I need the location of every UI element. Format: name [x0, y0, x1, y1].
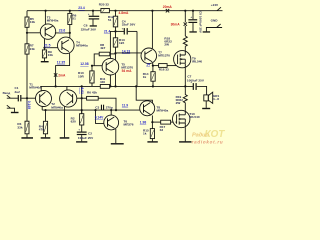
- svg-text:10k: 10k: [48, 53, 53, 57]
- svg-text:МП940а: МП940а: [29, 85, 41, 89]
- svg-text:10k: 10k: [30, 20, 35, 24]
- svg-text:1k: 1k: [143, 75, 147, 79]
- resistor R8: [94, 43, 115, 66]
- wire T8 emitter down: [151, 115, 153, 122]
- node 12.08: [91, 65, 93, 67]
- resistor R18 zigzag: [164, 36, 187, 47]
- node C3 left: [94, 109, 96, 111]
- svg-text:23.4: 23.4: [78, 6, 85, 10]
- svg-text:+: +: [78, 128, 80, 132]
- wire top supply rail right segment: [109, 10, 217, 12]
- connector +24V: [211, 3, 223, 11]
- wire T7 collector to rail: [151, 11, 153, 49]
- resistor R6 43k: [87, 90, 116, 110]
- resistor R7: [25, 44, 35, 54]
- feedback wire horizontal: [42, 109, 140, 111]
- svg-text:24k: 24k: [30, 47, 35, 51]
- svg-text:620: 620: [71, 119, 76, 123]
- node rail C6: [92, 10, 94, 12]
- node divider junction: [26, 32, 28, 34]
- wire R13 to T7 base node: [115, 47, 117, 86]
- node T6 collector: [110, 109, 112, 111]
- svg-text:51: 51: [108, 18, 112, 22]
- node T7 base junction: [114, 52, 116, 54]
- connector input ground: [7, 105, 19, 113]
- svg-text:100uF 25V: 100uF 25V: [78, 136, 94, 140]
- node rail R13 column: [114, 85, 116, 87]
- wire R19 to T10 drain: [184, 103, 186, 111]
- wire R12 to R13: [115, 27, 117, 38]
- resistor R16: [153, 64, 177, 72]
- wire R18 to T9 drain: [184, 46, 186, 51]
- resistor R15: [143, 122, 158, 142]
- node 21.4 junction: [114, 30, 116, 32]
- node input base junction: [26, 97, 28, 99]
- svg-text:51: 51: [72, 16, 76, 20]
- svg-text:R20 33: R20 33: [99, 3, 109, 7]
- wire T7 emitter down: [152, 62, 154, 65]
- svg-text:GND: GND: [211, 18, 219, 22]
- svg-text:20mA: 20mA: [163, 5, 173, 9]
- svg-text:0.149: 0.149: [27, 101, 31, 109]
- capacitor C7: [187, 75, 205, 90]
- svg-text:14: 14: [146, 63, 150, 67]
- transistor T6: [104, 110, 134, 144]
- svg-text:430: 430: [100, 80, 105, 84]
- resistor R5: [25, 17, 35, 27]
- node rail T3: [45, 10, 47, 12]
- node at 69.8,32.9: [69, 32, 71, 34]
- resistor R19 zigzag: [176, 86, 188, 105]
- resistor R6 51: [68, 11, 77, 33]
- wire top supply rail left segment: [27, 10, 101, 12]
- svg-text:МП1370: МП1370: [158, 53, 170, 57]
- node rail R14: [152, 85, 154, 87]
- svg-text:R16 33: R16 33: [159, 68, 169, 72]
- wire T4 collector path with current probe: [56, 53, 70, 86]
- speaker GR1: [204, 92, 220, 103]
- capacitor C6: [81, 11, 100, 32]
- wire T4 base: [45, 47, 58, 49]
- svg-text:1k5: 1k5: [119, 41, 124, 45]
- capacitor C3: [95, 105, 113, 110]
- current probe X 20mA: [163, 5, 173, 12]
- svg-text:21.5: 21.5: [44, 44, 51, 48]
- resistor R17: [152, 120, 175, 132]
- resistor R20: [99, 3, 110, 13]
- connector GND: [203, 18, 222, 32]
- resistor R14: [143, 66, 155, 87]
- watermark Radio KOT: [192, 129, 226, 144]
- node on rail at R5 column: [26, 11, 28, 17]
- transistor T2: [51, 86, 77, 137]
- node rail T9 source: [184, 85, 186, 87]
- wire T3 right to R6 column: [55, 33, 70, 38]
- svg-text:33uF 26V: 33uF 26V: [122, 23, 137, 27]
- svg-text:R6 43k: R6 43k: [87, 90, 97, 94]
- transistor T8 driver: [140, 101, 169, 116]
- transistor T4: [58, 37, 89, 54]
- svg-text:IRL540: IRL540: [189, 115, 199, 119]
- svg-text:+: +: [122, 26, 124, 30]
- wire C7 to speaker: [197, 86, 207, 95]
- ground under R9: [41, 58, 49, 63]
- resistor R10: [78, 66, 94, 87]
- node rail MOSFET column: [184, 10, 186, 12]
- svg-text:470: 470: [39, 127, 44, 131]
- svg-text:Радио: Радио: [192, 132, 209, 138]
- node rail T1T2 emitters: [55, 85, 57, 87]
- node T4 base junction: [43, 47, 45, 49]
- capacitor C1: [15, 86, 28, 102]
- ground under T2 collector: [60, 137, 70, 139]
- svg-text:МП940а: МП940а: [47, 19, 59, 23]
- node rail R6: [69, 10, 71, 12]
- wire T3 emitter to rail: [44, 11, 46, 24]
- svg-text:МП940а: МП940а: [157, 109, 169, 113]
- svg-text:21.4: 21.4: [104, 29, 111, 33]
- svg-text:МП376: МП376: [124, 123, 134, 127]
- wire T8 collector from rail: [136, 86, 152, 103]
- resistor R12: [108, 11, 118, 27]
- wire rail down to probe: [184, 11, 186, 23]
- wire T5 emitter down: [109, 75, 111, 86]
- resistor R4: [39, 110, 51, 139]
- svg-text:33k: 33k: [17, 125, 22, 129]
- resistor R11 430 in series on rail: [100, 77, 110, 88]
- current probe X 2mA: [54, 73, 66, 77]
- svg-text:33: 33: [160, 128, 164, 132]
- wire feedback to rail: [81, 86, 83, 113]
- resistor R2: [71, 110, 84, 131]
- wire T6 base: [96, 110, 104, 123]
- svg-text:IRL540: IRL540: [192, 60, 202, 64]
- wire T9 source to output rail: [184, 68, 186, 87]
- svg-text:12.08: 12.08: [80, 62, 88, 66]
- svg-text:4...8: 4...8: [213, 97, 219, 101]
- svg-text:23.6: 23.6: [59, 29, 66, 33]
- wire probe to R18: [184, 26, 186, 36]
- svg-text:+: +: [88, 12, 90, 16]
- MOSFET T10: [173, 110, 200, 127]
- svg-text:2u2: 2u2: [15, 90, 21, 94]
- svg-text:8.01: 8.01: [80, 88, 84, 95]
- node T8 emitter: [151, 121, 153, 123]
- svg-text:C3: C3: [95, 105, 99, 109]
- svg-text:2W: 2W: [176, 101, 181, 105]
- wire base of T3: [27, 32, 40, 34]
- node R2 top: [81, 109, 83, 111]
- svg-text:54 mA: 54 mA: [122, 69, 133, 73]
- svg-text:4k7: 4k7: [100, 46, 105, 50]
- svg-text:2mA: 2mA: [58, 74, 66, 78]
- svg-text:C2: C2: [88, 131, 92, 135]
- wire input connector: [3, 91, 18, 98]
- resistor R13: [113, 38, 125, 47]
- wire T2 base: [77, 97, 87, 99]
- capacitor C4: [116, 19, 138, 34]
- wire T10 source to ground: [179, 128, 191, 143]
- svg-text:30mA: 30mA: [171, 23, 181, 27]
- node R6 bottom: [115, 109, 117, 111]
- svg-text:+: +: [190, 15, 192, 19]
- resistor R9: [42, 48, 53, 58]
- wire R5 to R7: [26, 27, 28, 44]
- svg-text:МП940а: МП940а: [76, 43, 88, 47]
- transistor T7: [141, 48, 170, 64]
- svg-text:10R: 10R: [78, 74, 84, 78]
- svg-text:12.35: 12.35: [57, 61, 65, 65]
- capacitor C5: [188, 11, 202, 34]
- ground under speaker: [202, 101, 210, 109]
- wire T5 collector up: [110, 31, 115, 58]
- node rail R12 column: [114, 10, 116, 12]
- wire R7 down to input node: [26, 54, 28, 121]
- svg-text:11.9: 11.9: [122, 104, 128, 108]
- svg-text:C5 1000uF 25V: C5 1000uF 25V: [199, 11, 203, 34]
- svg-text:220uF 26V: 220uF 26V: [81, 27, 97, 31]
- node rail T8: [135, 85, 137, 87]
- node R4 top: [44, 109, 46, 111]
- node feedback top: [81, 97, 83, 99]
- transistor T5: [92, 58, 133, 75]
- node rail T7: [151, 10, 153, 12]
- node rail feedback: [81, 85, 83, 87]
- node rail C5: [192, 10, 194, 12]
- svg-text:1.98: 1.98: [140, 120, 147, 124]
- svg-text:radiokot.ru: radiokot.ru: [192, 139, 224, 144]
- node rail T5 emitter: [109, 85, 111, 87]
- wire T7 base: [116, 52, 142, 54]
- svg-text:МП940а: МП940а: [51, 105, 63, 109]
- capacitor C2: [76, 128, 94, 143]
- node T7 emitter: [152, 65, 154, 67]
- wire T10 gate: [175, 121, 176, 123]
- svg-text:4.8mA: 4.8mA: [119, 11, 130, 15]
- svg-text:0.14V: 0.14V: [95, 116, 104, 120]
- svg-text:2W: 2W: [164, 43, 169, 47]
- MOSFET T9: [174, 51, 203, 68]
- svg-text:Вход: Вход: [3, 91, 11, 95]
- svg-text:1k: 1k: [143, 131, 147, 135]
- transistor T3: [40, 16, 58, 40]
- current probe X 30mA: [171, 22, 187, 26]
- svg-text:270p: 270p: [106, 105, 113, 109]
- ground under R3: [21, 134, 33, 139]
- svg-text:+24V: +24V: [211, 3, 219, 7]
- resistor R3: [17, 121, 29, 134]
- svg-text:1000uF 25V: 1000uF 25V: [187, 79, 205, 83]
- output rail horizontal: [40, 85, 193, 87]
- wire T3 collector down: [44, 39, 46, 48]
- transistor T1: [29, 82, 51, 110]
- wire T1 base: [27, 97, 36, 99]
- wire C4 branch down to output rail: [136, 31, 138, 86]
- svg-text:14.13: 14.13: [122, 50, 130, 54]
